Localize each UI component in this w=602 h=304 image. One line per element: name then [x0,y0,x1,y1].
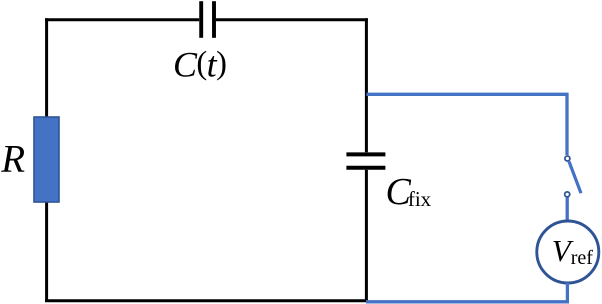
wire top-right horizontal (black) [216,18,368,21]
wire blue top horizontal [366,93,567,96]
voltage source Vref circle [537,221,599,283]
capacitor Cfix plates [346,154,385,167]
svg-text:Cfix: Cfix [386,171,432,213]
wire top-left horizontal (black) [45,18,199,21]
wire bottom horizontal (black) [45,299,368,302]
resistor R [34,117,59,202]
svg-text:C(t): C(t) [173,44,226,84]
switch SW1 blade [569,162,581,194]
switch SW1 top contact [565,156,570,161]
wire blue right vertical upper [565,93,568,155]
wire blue switch to source [566,198,569,222]
wire left vertical (black) [45,18,48,301]
wire right vertical upper (black) [365,18,368,152]
switch SW1 bottom contact [565,192,570,197]
wire right vertical lower (black) [365,170,368,301]
wire blue source bottom vertical [566,283,569,302]
capacitor C(t) plates [201,1,214,38]
svg-text:R: R [0,137,25,180]
wire blue bottom horizontal [366,300,569,303]
